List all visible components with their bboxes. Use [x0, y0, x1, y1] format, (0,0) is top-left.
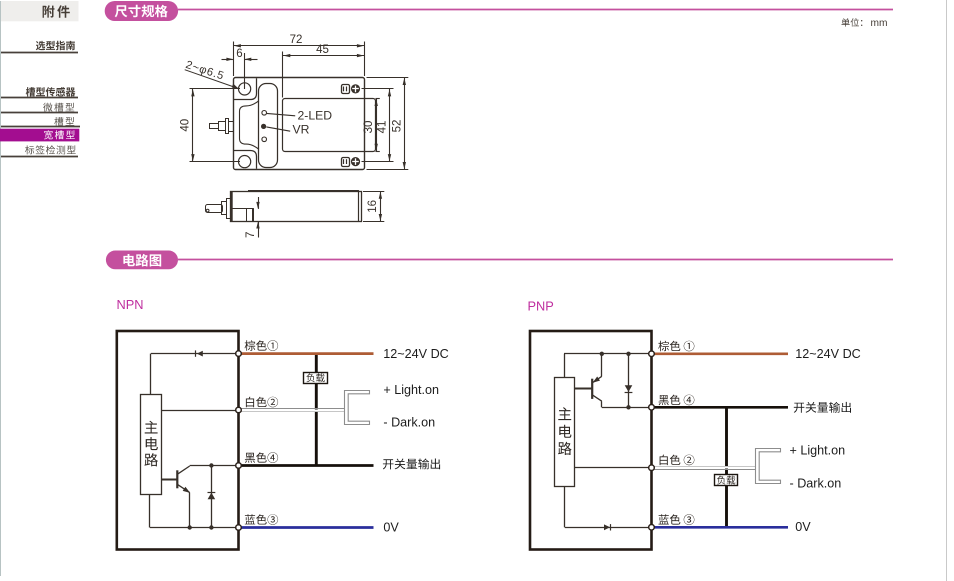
- svg-text:2~φ6.5: 2~φ6.5: [184, 59, 226, 83]
- svg-text:0V: 0V: [795, 520, 811, 534]
- svg-text:0V: 0V: [383, 521, 399, 535]
- svg-text:30: 30: [363, 121, 375, 134]
- svg-text:45: 45: [316, 44, 329, 56]
- svg-text:2-LED: 2-LED: [298, 109, 333, 123]
- svg-text:16: 16: [367, 200, 379, 213]
- svg-text:12~24V DC: 12~24V DC: [795, 347, 860, 361]
- svg-text:- Dark.on: - Dark.on: [383, 416, 435, 430]
- svg-text:+ Light.on: + Light.on: [383, 383, 439, 397]
- svg-text:7: 7: [245, 232, 257, 238]
- svg-text:mm: mm: [871, 18, 888, 29]
- svg-text:VR: VR: [293, 123, 310, 137]
- svg-text:NPN: NPN: [117, 297, 144, 312]
- svg-text:PNP: PNP: [528, 299, 554, 314]
- svg-text:6: 6: [236, 48, 242, 60]
- svg-text:52: 52: [391, 120, 403, 133]
- svg-text:72: 72: [290, 34, 303, 46]
- svg-text:12~24V DC: 12~24V DC: [383, 347, 448, 361]
- svg-text:- Dark.on: - Dark.on: [790, 476, 842, 490]
- svg-text:41: 41: [377, 121, 389, 134]
- svg-text:+ Light.on: + Light.on: [790, 444, 846, 458]
- svg-text:40: 40: [179, 119, 191, 132]
